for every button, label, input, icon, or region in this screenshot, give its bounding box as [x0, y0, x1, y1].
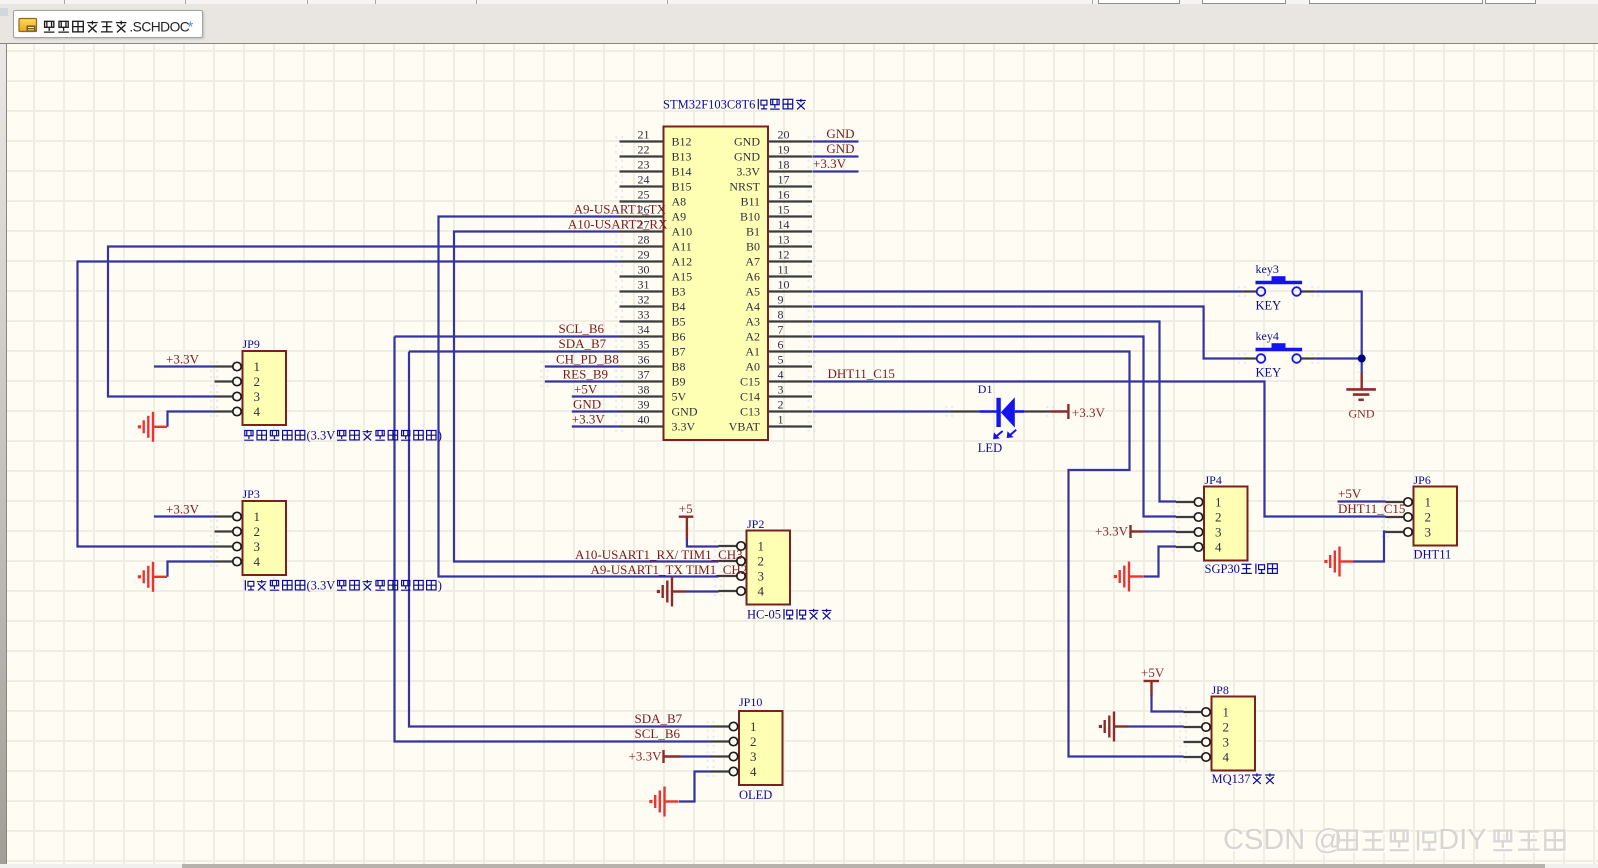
- value label KEY (key3): [1256, 299, 1282, 313]
- wire pin29 A12 to JP3 pin3: [78, 262, 620, 547]
- wire JP6 pin3 to ground: [1353, 532, 1386, 562]
- wire pin9 A4 to key4: [813, 307, 1243, 359]
- wire +3.3V stub pin40: [572, 425, 620, 427]
- net label GND pin20: [826, 126, 854, 141]
- net label +5V at JP6: [1338, 486, 1362, 501]
- ground at JP4: [1114, 562, 1143, 592]
- wire GND stub pin20: [813, 140, 859, 142]
- wire CH_PD_B8 stub pin36: [540, 361, 619, 372]
- comment 风扇继电器（3.3V低电平驱动继电器） JP3: [245, 579, 442, 593]
- connector JP4: [1172, 487, 1248, 561]
- net label SCL_B6: [559, 321, 605, 336]
- net label SDA_B7: [559, 336, 607, 351]
- wire GND stub pin39: [572, 410, 620, 412]
- ground at JP3: [138, 562, 167, 592]
- mcu U1 right pins 1-20 with numbers and names: [729, 128, 816, 434]
- wire JP2 pin4 to ground: [686, 590, 719, 592]
- designator JP8: [1212, 683, 1229, 697]
- power port +3.3V at JP4 pin3: [1095, 524, 1143, 539]
- wire GND stub pin19: [813, 155, 859, 157]
- connector JP2: [714, 531, 790, 605]
- net label A10-USART1_RX/ TIM1_CH3: [575, 547, 743, 562]
- wire key4 right to GND junction: [1316, 359, 1362, 374]
- wire pin8 A3 to JP4 pin1: [813, 322, 1177, 502]
- connector JP10: [707, 711, 783, 785]
- wire pin2 C13 to LED D1: [813, 410, 950, 412]
- net label GND pin39: [573, 397, 601, 412]
- power port +3.3V at JP10 pin3: [629, 749, 681, 764]
- active tab 原理图源文件.SCHDOC: [13, 10, 203, 38]
- net label SDA_B7 at JP10: [635, 711, 683, 726]
- comment 洒水继电器（3.3V低电平驱动继电器） JP9: [244, 429, 442, 443]
- comment MQ137模块: [1212, 772, 1275, 786]
- net label DHT11_C15 at JP6: [1338, 501, 1405, 516]
- ground at JP9: [138, 412, 167, 442]
- designator JP9: [243, 337, 260, 351]
- designator JP3: [243, 487, 260, 501]
- value label OLED: [739, 788, 772, 802]
- wire pin6 A1 to JP8 pin4: [813, 352, 1184, 757]
- wire JP8 pin2 to ground: [1128, 725, 1184, 727]
- designator JP2: [747, 517, 764, 531]
- ground at JP10: [649, 787, 678, 817]
- document tab bar: [0, 4, 1598, 43]
- mcu U1 title STM32F103C8T6最小系统: [663, 98, 806, 112]
- switch key4: [1238, 343, 1319, 364]
- wire +3.3V to JP3 pin1: [154, 515, 215, 517]
- ground power port GND (keys): [1346, 363, 1376, 400]
- wire JP4 pin4 to ground: [1143, 547, 1176, 577]
- value label DHT11: [1414, 548, 1452, 562]
- wire SDA_B7 pin35 to JP10 pin1: [409, 352, 711, 727]
- net label GND pin19: [826, 141, 854, 156]
- ground at JP8 pin2: [1099, 712, 1128, 742]
- wire JP10 pin4 to ground: [679, 772, 711, 802]
- wire +5V port to JP8 pin1: [1152, 695, 1184, 712]
- designator JP6: [1414, 473, 1431, 487]
- net label +3.3V pin18: [813, 156, 847, 171]
- connector JP8: [1179, 697, 1255, 771]
- value label LED: [978, 441, 1002, 455]
- junction dot keys GND: [1358, 355, 1366, 363]
- value label KEY (key4): [1256, 366, 1282, 380]
- tab icon (schematic document): [19, 19, 37, 32]
- horizontal scrollbar: [0, 864, 1598, 868]
- net label +5V pin38: [574, 382, 598, 397]
- wire A10-USART2_RX pin27 to JP2 pin2: [454, 232, 719, 562]
- tab title text 原理图源文件.SCHDOC *: [44, 19, 194, 36]
- wire +3.3V port to JP4 pin3: [1144, 530, 1177, 532]
- ground at JP6: [1324, 547, 1353, 577]
- designator JP10: [739, 695, 762, 709]
- wire RES_B9 stub pin37: [540, 376, 619, 387]
- wire pin10 A5 to key3: [813, 290, 1243, 292]
- wire pin28 A11 to JP9 pin3: [108, 247, 620, 397]
- connector JP6: [1381, 487, 1457, 546]
- wire +3.3V stub pin18: [813, 170, 859, 172]
- designator D1: [978, 382, 993, 396]
- comment HC-05蓝牙模块: [747, 608, 831, 622]
- wire pin7 A2 to JP4 pin2: [813, 337, 1177, 517]
- LED D1: [945, 397, 1054, 439]
- connector JP3: [210, 501, 286, 575]
- mcu U1 left pins 21-40 with numbers and names: [615, 128, 698, 434]
- left panel strip: [0, 44, 7, 864]
- power port +5 at JP2 pin1: [679, 501, 694, 540]
- switch key3: [1238, 276, 1319, 297]
- connector JP9: [210, 351, 286, 425]
- comment SGP30传感器: [1205, 562, 1278, 576]
- designator key4: [1256, 329, 1279, 343]
- net label A9-USART1_TX TIM1_CH2: [591, 562, 748, 577]
- net label A9-USART1_TX: [574, 202, 667, 217]
- wire +3.3V port to JP10 pin3: [681, 755, 712, 757]
- net label +3.3V at JP9: [166, 352, 200, 367]
- net label DHT11_C15 at pin4: [828, 366, 895, 381]
- wire SCL_B6 pin34 to JP10 pin2: [395, 337, 712, 742]
- net label CH_PD_B8: [556, 352, 619, 367]
- wire +3.3V to JP9 pin1: [154, 365, 215, 367]
- wire DHT11_C15 pin4 to JP6 pin2: [813, 382, 1386, 517]
- wire key3 right to GND junction: [1316, 292, 1362, 359]
- net label +3.3V pin40: [572, 412, 606, 427]
- wire +5V stub pin38: [572, 395, 620, 397]
- net label +3.3V at JP3: [166, 502, 200, 517]
- net label A10-USART2_RX: [568, 217, 668, 232]
- net label SCL_B6 at JP10: [635, 726, 681, 741]
- wire A9-USART1_TX pin26 to JP2 pin3: [439, 217, 719, 577]
- wire +5 to JP2 pin1: [687, 539, 719, 547]
- designator JP4: [1205, 473, 1222, 487]
- toolbar remnant strip: [0, 0, 1598, 4]
- designator key3: [1256, 262, 1279, 276]
- wire +5V to JP6 pin1: [1338, 500, 1386, 502]
- ground at JP2 pin4: [657, 577, 686, 607]
- canvas top border: [0, 43, 1598, 45]
- watermark CSDN @电子工程DIY工作室: [1223, 824, 1566, 858]
- power port +5V at JP8 pin1: [1141, 665, 1165, 696]
- wire JP3 pin4 to ground: [168, 562, 215, 577]
- net label GND (keys ground): [1349, 406, 1375, 420]
- mcu U1 STM32F103C8T6 body: [664, 127, 769, 441]
- power port +3.3V at D1: [1051, 404, 1106, 420]
- net label RES_B9: [563, 367, 609, 382]
- wire JP9 pin4 to ground: [168, 412, 215, 427]
